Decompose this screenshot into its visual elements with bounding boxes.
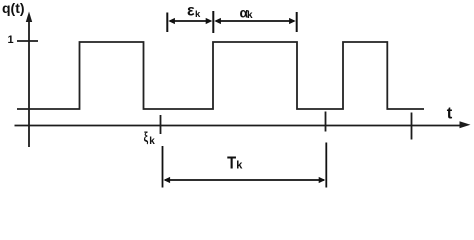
label epsilon_k bbox=[187, 3, 201, 20]
y-axis arrowhead bbox=[26, 12, 32, 23]
y-axis bbox=[28, 18, 30, 147]
tick xi_k on time axis bbox=[160, 115, 162, 134]
T_k extension line left bbox=[162, 146, 164, 188]
measure bar middle (pulse 2 rise) bbox=[212, 11, 214, 33]
svg-text:k: k bbox=[236, 160, 243, 172]
label xi_k bbox=[144, 129, 156, 147]
svg-text:k: k bbox=[149, 136, 155, 147]
label T_k bbox=[227, 153, 243, 173]
T_k extension line right bbox=[325, 143, 327, 188]
svg-text:t: t bbox=[447, 104, 453, 122]
time axis arrowhead bbox=[460, 121, 471, 128]
tick level 1 bbox=[17, 40, 38, 42]
tick right on time axis bbox=[411, 113, 413, 140]
alpha_k dimension arrow bbox=[214, 18, 295, 24]
svg-text:k: k bbox=[247, 10, 253, 21]
svg-text:k: k bbox=[195, 9, 201, 20]
svg-text:q(t): q(t) bbox=[2, 0, 25, 16]
epsilon_k dimension arrow bbox=[168, 18, 212, 24]
svg-text:ξ: ξ bbox=[144, 129, 149, 145]
measure bar right (pulse 2 fall) bbox=[296, 12, 298, 32]
svg-text:T: T bbox=[227, 153, 236, 173]
time axis bbox=[15, 125, 464, 127]
waveform q(t) pulse train bbox=[17, 42, 424, 109]
label alpha_k bbox=[240, 5, 254, 22]
measure bar left (epsilon start) bbox=[166, 13, 168, 33]
tick at end of T_k on time axis bbox=[325, 112, 327, 132]
svg-text:ε: ε bbox=[187, 3, 195, 20]
T_k dimension arrow bbox=[164, 177, 326, 183]
svg-text:1: 1 bbox=[8, 34, 14, 46]
